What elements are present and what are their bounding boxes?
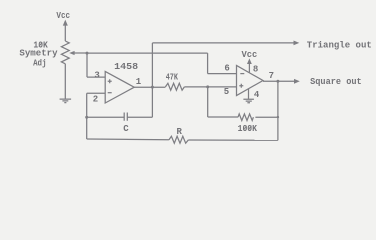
slashes in zeros of 100K <box>243 126 251 130</box>
potentiometer wiper arrowhead <box>69 51 74 55</box>
svg-text:C: C <box>123 124 129 134</box>
resistor R3 100K zigzag <box>238 114 253 121</box>
wire pin2 node down to capacitor node <box>86 93 88 139</box>
wire triangle output top line <box>152 42 294 44</box>
wire pot bottom to ground <box>64 64 66 99</box>
op-amp U1A minus sign (pin 2 input) <box>108 92 112 94</box>
op-amp U1A plus sign (pin 3 input) <box>108 79 112 83</box>
capacitor C plates <box>124 113 127 121</box>
wire 47K to U1B pin 5 <box>184 86 236 88</box>
svg-text:Adj: Adj <box>33 58 46 68</box>
node C junction dot (U1A output) <box>151 86 154 89</box>
wire node D down to 100K left <box>208 87 238 117</box>
svg-text:6: 6 <box>224 64 229 74</box>
wire 100K right to output vertical <box>255 116 278 118</box>
op-amp U1B (1458) triangle <box>237 66 264 96</box>
arrowhead triangle out <box>294 41 300 46</box>
node F junction dot (U1B output) <box>276 80 279 83</box>
svg-text:7: 7 <box>269 71 274 81</box>
wire node B to capacitor C left plate <box>87 116 125 118</box>
svg-text:8: 8 <box>253 65 258 75</box>
node A junction dot (wiper node) <box>86 52 89 55</box>
svg-text:Triangle out: Triangle out <box>307 40 372 50</box>
power Vcc symbol (top left, pot supply) arrow stem <box>64 25 66 42</box>
svg-text:Vcc: Vcc <box>242 50 258 60</box>
svg-text:Vcc: Vcc <box>56 11 70 21</box>
power Vcc arrow stem (U1B pin 8) <box>248 63 250 73</box>
node E junction dot (100K to output vertical) <box>277 116 279 118</box>
wire capacitor right plate to mid vertical <box>127 116 152 118</box>
svg-text:100K: 100K <box>238 124 258 134</box>
wire bottom feedback line left segment <box>87 138 169 141</box>
wire wiper to node A <box>74 52 87 54</box>
potentiometer R1 10K zigzag body <box>61 41 69 64</box>
ground symbol (U1B pin 4) <box>243 99 254 103</box>
arrowhead square out <box>294 79 300 84</box>
power Vcc arrowhead (U1B pin 8) <box>247 58 252 64</box>
wire U1A pin 2 input <box>87 92 106 94</box>
op-amp U1A (1458) triangle <box>105 71 134 103</box>
node B junction dot (cap / pin2 node) <box>85 116 88 119</box>
svg-text:1: 1 <box>136 77 142 87</box>
power Vcc arrowhead <box>63 20 68 26</box>
node D junction dot (pin 5 node) <box>206 85 209 88</box>
wire bottom feedback line right segment <box>188 139 278 141</box>
resistor R2 47K zigzag <box>165 83 184 90</box>
svg-text:3: 3 <box>94 70 99 80</box>
wire node A to comparator inverting input (right then down) <box>87 53 237 74</box>
resistor R4 R zigzag <box>169 136 189 143</box>
wire output vertical down to bottom feedback line <box>277 81 279 140</box>
svg-text:R: R <box>177 127 183 137</box>
svg-text:Symetry: Symetry <box>19 49 58 59</box>
slash in zero of 10K <box>39 42 42 46</box>
svg-text:1458: 1458 <box>114 62 138 72</box>
wire node A down to op-amp U1A pin 3 <box>87 53 105 77</box>
wire U1B output pin 7 square out line <box>263 80 295 82</box>
svg-text:47K: 47K <box>166 72 179 82</box>
svg-text:4: 4 <box>254 90 260 100</box>
svg-text:5: 5 <box>224 87 229 97</box>
op-amp U1B plus sign (pin 5 input) <box>239 84 243 88</box>
ground stem (U1B pin 4) <box>248 89 250 99</box>
wire U1A output pin 1 to 47K <box>134 86 165 88</box>
svg-text:Square out: Square out <box>310 77 362 87</box>
ground symbol (pot) <box>60 99 72 103</box>
svg-text:2: 2 <box>93 94 98 104</box>
wire mid vertical (triangle-out node) <box>151 43 153 117</box>
op-amp U1B minus sign (pin 6 input) <box>240 73 244 75</box>
